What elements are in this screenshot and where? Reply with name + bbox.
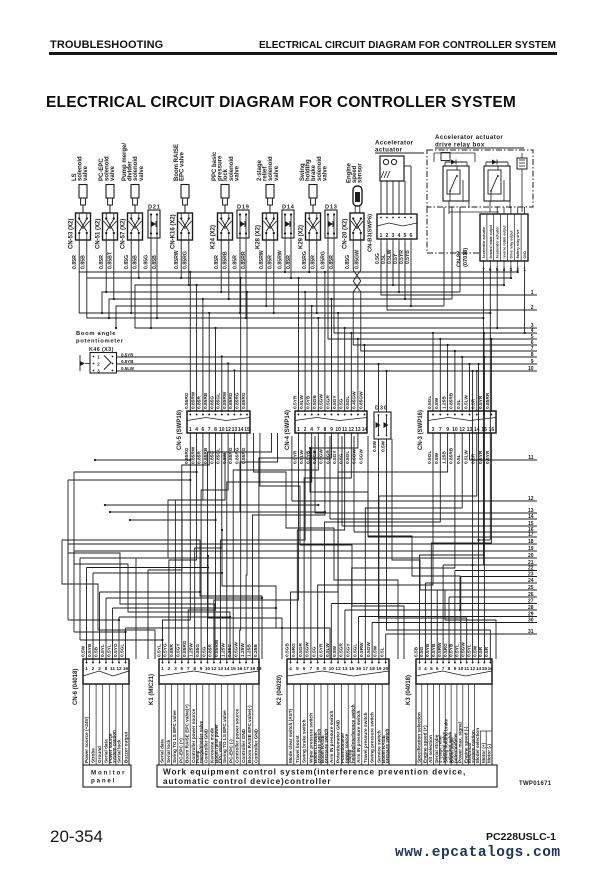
svg-text:CN-20 (X2): CN-20 (X2)	[343, 219, 349, 249]
wires CN-4 to K2 controller	[291, 433, 358, 659]
connector CN-5 (SWP18)	[177, 410, 250, 450]
svg-text:28: 28	[528, 605, 534, 611]
svg-text:8: 8	[316, 666, 319, 672]
svg-text:14: 14	[238, 427, 244, 433]
svg-text:10: 10	[329, 666, 335, 672]
svg-text:9: 9	[323, 666, 326, 672]
wires CN-5 to K1 controller	[163, 433, 248, 659]
net stub 31	[386, 629, 537, 659]
svg-text:15: 15	[231, 666, 237, 672]
svg-text:7: 7	[442, 666, 445, 672]
net stub 28	[345, 605, 537, 659]
svg-text:0.5GW: 0.5GW	[352, 449, 358, 464]
svg-text:1: 1	[189, 427, 192, 433]
svg-text:2: 2	[304, 427, 307, 433]
svg-text:0.5GY: 0.5GY	[346, 643, 352, 657]
svg-text:0.85RB: 0.85RB	[203, 447, 209, 464]
svg-text:10: 10	[219, 427, 225, 433]
svg-text:19: 19	[528, 546, 534, 552]
svg-text:7: 7	[439, 427, 442, 433]
solenoid valve CN-53 (LS solenoid valve)	[69, 156, 91, 269]
svg-text:Ground: Ground	[97, 746, 102, 763]
svg-text:15: 15	[482, 666, 488, 672]
monitor panel box	[83, 765, 131, 787]
svg-text:8: 8	[214, 427, 217, 433]
svg-text:valve: valve	[274, 165, 280, 181]
svg-text:15: 15	[349, 666, 355, 672]
svg-text:0.5YB: 0.5YB	[431, 643, 437, 657]
svg-text:13: 13	[218, 666, 224, 672]
connector CN-82 (07018)	[449, 207, 528, 272]
svg-text:K2 (04020): K2 (04020)	[277, 675, 283, 705]
wires into CN-6 monitor panel connector	[87, 566, 284, 659]
svg-text:6: 6	[202, 427, 205, 433]
svg-text:0.5L: 0.5L	[456, 399, 462, 409]
svg-text:0.85RG: 0.85RG	[183, 251, 189, 269]
svg-text:K1 (MIC21): K1 (MIC21)	[149, 674, 155, 705]
svg-text:0.5L: 0.5L	[380, 647, 386, 657]
svg-text:0.5GL: 0.5GL	[119, 644, 125, 657]
svg-text:Serial lock: Serial lock	[166, 739, 171, 763]
svg-text:4: 4	[289, 666, 292, 672]
svg-text:0.5YG: 0.5YG	[163, 643, 169, 657]
wire labels around CN-5	[184, 391, 247, 464]
svg-text:0.5YB: 0.5YB	[121, 359, 134, 364]
svg-text:12: 12	[335, 666, 341, 672]
svg-text:D30: D30	[375, 406, 388, 412]
svg-text:0.5B: 0.5B	[413, 646, 419, 657]
svg-text:0.85G: 0.85G	[195, 644, 201, 657]
connector CN-3 (SWP16)	[418, 410, 496, 450]
svg-text:27: 27	[528, 598, 534, 604]
svg-text:0.5GR: 0.5GR	[339, 643, 345, 657]
svg-text:0.5W: 0.5W	[373, 645, 379, 657]
svg-text:0.5YB: 0.5YB	[306, 395, 312, 409]
net stub 30	[372, 617, 537, 659]
svg-text:Motor (+): Motor (+)	[481, 742, 486, 763]
svg-text:0.5YB: 0.5YB	[405, 250, 411, 264]
svg-text:Swing pressure switch: Swing pressure switch	[370, 712, 375, 763]
svg-text:0.5W: 0.5W	[434, 452, 440, 464]
svg-text:2: 2	[92, 666, 95, 672]
bus stub lines 8-10 from potentiometer	[117, 352, 538, 372]
page title	[46, 94, 516, 112]
svg-text:9: 9	[454, 666, 457, 672]
svg-text:Controller GND: Controller GND	[254, 728, 259, 763]
svg-text:CN-57 (X2): CN-57 (X2)	[121, 219, 127, 249]
svg-text:9: 9	[531, 359, 534, 365]
net stub 11	[470, 433, 538, 461]
svg-text:3: 3	[392, 233, 395, 239]
svg-text:14: 14	[224, 666, 230, 672]
svg-text:0.5GW: 0.5GW	[366, 642, 372, 657]
svg-text:19: 19	[376, 666, 382, 672]
svg-text:15: 15	[244, 427, 250, 433]
connector CN-6 (04018) to monitor panel	[73, 643, 129, 705]
header: section name	[50, 39, 163, 51]
svg-text:6: 6	[303, 666, 306, 672]
svg-text:7: 7	[187, 666, 190, 672]
svg-text:17: 17	[528, 532, 534, 538]
net stub 12	[292, 436, 537, 502]
svg-text:0.85B: 0.85B	[81, 255, 87, 269]
svg-text:3: 3	[98, 666, 101, 672]
svg-text:16: 16	[488, 666, 494, 672]
svg-text:4: 4	[310, 427, 313, 433]
wires from CN-3 top to bus lines	[432, 332, 493, 411]
svg-text:12: 12	[528, 496, 534, 502]
svg-text:11: 11	[110, 666, 115, 672]
svg-text:3: 3	[432, 427, 435, 433]
svg-text:13: 13	[232, 427, 238, 433]
connector CN-B3(SWP6)	[368, 166, 418, 264]
svg-text:2: 2	[97, 362, 100, 367]
document code	[486, 831, 556, 843]
bus stub lines 4-5 from diode D13	[328, 240, 537, 340]
net stub 16	[354, 436, 537, 533]
svg-text:K28 (X2): K28 (X2)	[256, 225, 262, 249]
svg-text:9: 9	[446, 427, 449, 433]
svg-text:Boom RAISE EPC valve(+): Boom RAISE EPC valve(+)	[185, 704, 190, 763]
solenoid valve K24 (PPC basic pressure lock solenoid valve)	[211, 151, 241, 269]
svg-text:1: 1	[85, 666, 88, 672]
svg-text:12: 12	[116, 666, 122, 672]
svg-text:0.5G: 0.5G	[312, 646, 318, 657]
wires from CN-B3 down to bus lines	[392, 242, 412, 307]
svg-text:0.5GB: 0.5GB	[284, 643, 290, 657]
svg-text:GND: GND	[523, 251, 527, 259]
diode D13	[321, 205, 338, 270]
svg-text:14: 14	[362, 427, 368, 433]
diode D14	[278, 205, 295, 270]
potentiometer signal wires down to K3	[471, 356, 485, 659]
connector K3 (04018)	[406, 642, 493, 705]
solenoid valve K28 (2-stage relief solenoid valve)	[256, 156, 280, 269]
svg-text:0.85RW: 0.85RW	[190, 391, 196, 409]
svg-text:CN-K16 (X2): CN-K16 (X2)	[171, 214, 177, 249]
svg-text:0.5GL: 0.5GL	[345, 451, 351, 464]
svg-text:Battery relay drive: Battery relay drive	[516, 230, 520, 259]
svg-text:sensor: sensor	[358, 163, 364, 183]
svg-text:6: 6	[410, 233, 413, 239]
svg-text:0.5LW: 0.5LW	[463, 395, 469, 409]
svg-text:Model selection: Model selection	[475, 728, 480, 763]
svg-text:0.85RG: 0.85RG	[302, 251, 308, 269]
svg-text:16: 16	[356, 666, 362, 672]
net stub 24	[425, 578, 537, 659]
svg-text:14: 14	[476, 666, 482, 672]
accelerator actuator	[375, 140, 424, 182]
svg-text:0.5LW: 0.5LW	[299, 450, 305, 464]
svg-text:0.85RW: 0.85RW	[222, 391, 228, 409]
svg-text:0.5B: 0.5B	[93, 646, 99, 657]
accelerator actuator drive relay box (dash-dot enclosure)	[427, 134, 533, 253]
signal labels for CN-6	[83, 684, 129, 765]
svg-text:Work equipment control system(: Work equipment control system(interferen…	[163, 768, 466, 777]
svg-text:0.5W: 0.5W	[80, 645, 86, 657]
svg-text:Drive relay output: Drive relay output	[509, 230, 513, 259]
svg-text:5: 5	[404, 233, 407, 239]
svg-text:0.85GW: 0.85GW	[358, 391, 364, 409]
svg-text:Buzzer output: Buzzer output	[123, 731, 128, 763]
svg-text:19: 19	[256, 666, 262, 672]
svg-text:0.85G: 0.85G	[209, 451, 215, 464]
svg-text:drive relay box: drive relay box	[435, 142, 485, 149]
svg-text:Boom RAISE EPC valve(-): Boom RAISE EPC valve(-)	[247, 705, 252, 763]
svg-text:Accelerator actuator: Accelerator actuator	[482, 226, 486, 259]
svg-text:0.5GL: 0.5GL	[352, 644, 358, 657]
svg-text:pressure switch: pressure switch	[385, 728, 390, 763]
svg-text:0.85RB: 0.85RB	[203, 392, 209, 409]
svg-text:1.25W: 1.25W	[221, 643, 227, 657]
svg-text:Swing TO LS EPC valve: Swing TO LS EPC valve	[222, 710, 227, 763]
svg-text:0.85B: 0.85B	[133, 255, 139, 269]
svg-text:CN-5 (SWP18): CN-5 (SWP18)	[177, 410, 183, 450]
page number	[50, 827, 103, 847]
svg-text:0.5GW: 0.5GW	[305, 642, 311, 657]
svg-text:0.5RW: 0.5RW	[359, 642, 365, 657]
svg-text:12: 12	[459, 427, 465, 433]
net stub 17	[368, 436, 537, 538]
svg-text:0.5LW: 0.5LW	[299, 395, 305, 409]
svg-text:0.85RG: 0.85RG	[228, 392, 234, 409]
net stub 20	[80, 553, 537, 641]
solenoid valve CN-51 (PC-EPC solenoid valve)	[96, 156, 118, 269]
svg-text:16: 16	[237, 666, 243, 672]
net stub 21	[443, 560, 537, 659]
svg-text:0.85RG: 0.85RG	[182, 640, 188, 657]
svg-text:0.5YL: 0.5YL	[455, 644, 461, 657]
svg-text:Travel pressure switch: Travel pressure switch	[363, 712, 368, 763]
svg-text:26: 26	[528, 592, 534, 598]
svg-text:0.5R: 0.5R	[471, 453, 477, 464]
svg-text:3: 3	[174, 666, 177, 672]
solenoid valve CN-K16 (Boom RAISE EPC valve)	[171, 144, 193, 269]
svg-text:Travel boost: Travel boost	[295, 735, 300, 763]
svg-text:1: 1	[97, 355, 100, 360]
svg-text:Strobe: Strobe	[91, 748, 96, 763]
boom angle potentiometer K46 (X3)	[76, 331, 135, 374]
svg-text:16: 16	[123, 666, 129, 672]
svg-text:0.85R: 0.85R	[197, 396, 203, 409]
svg-text:2: 2	[386, 233, 389, 239]
svg-text:0.85GW: 0.85GW	[355, 250, 361, 269]
svg-text:Power source (+24V): Power source (+24V)	[84, 716, 89, 763]
svg-text:1: 1	[531, 290, 534, 296]
svg-text:0.5YL: 0.5YL	[156, 644, 162, 657]
svg-text:K24 (X2): K24 (X2)	[211, 225, 217, 249]
svg-text:valve: valve	[83, 165, 89, 181]
connector K1 (MIC21)	[149, 639, 262, 705]
svg-text:1.25W: 1.25W	[189, 643, 195, 657]
bus stub line 1 from CN-B3	[381, 242, 537, 296]
svg-text:0.5W: 0.5W	[372, 440, 378, 452]
svg-text:20: 20	[383, 666, 389, 672]
signal labels for K1	[159, 684, 259, 765]
svg-text:20: 20	[528, 553, 534, 559]
solenoid valve CN-57 (Pump merge/ divider solenoid valve)	[121, 143, 145, 269]
svg-text:EPC valve: EPC valve	[180, 151, 186, 181]
svg-text:CN-53 (X2): CN-53 (X2)	[69, 219, 75, 249]
work equipment controller box	[157, 765, 497, 787]
svg-text:23: 23	[528, 571, 534, 577]
svg-text:Specification selection: Specification selection	[417, 712, 422, 763]
svg-text:1.25B: 1.25B	[246, 644, 252, 657]
net stub 27	[331, 598, 537, 659]
wires from CN-4 top to bus lines	[297, 271, 365, 411]
svg-text:0.5GL: 0.5GL	[345, 396, 351, 409]
svg-text:0.5YR: 0.5YR	[292, 450, 298, 464]
svg-text:TWP01671: TWP01671	[519, 781, 552, 787]
svg-text:9: 9	[200, 666, 203, 672]
svg-text:0.85R: 0.85R	[214, 255, 220, 269]
svg-text:0.85G: 0.85G	[209, 396, 215, 409]
svg-text:0.5R: 0.5R	[471, 398, 477, 409]
svg-text:10: 10	[528, 366, 534, 372]
svg-text:0.45GW: 0.45GW	[352, 391, 358, 409]
svg-text:0.5W: 0.5W	[381, 440, 387, 452]
svg-text:14: 14	[528, 514, 534, 520]
net stub 25	[437, 585, 537, 659]
svg-text:0.5RW: 0.5RW	[437, 642, 443, 657]
svg-text:7: 7	[317, 427, 320, 433]
wire labels around CN-3	[427, 392, 491, 464]
svg-text:18: 18	[369, 666, 375, 672]
svg-text:0.85R: 0.85R	[233, 255, 239, 269]
svg-text:11: 11	[528, 455, 534, 461]
svg-text:CN-4 (SWP14): CN-4 (SWP14)	[285, 410, 291, 450]
svg-text:0.5G: 0.5G	[201, 646, 207, 657]
svg-text:0.5YB: 0.5YB	[425, 643, 431, 657]
svg-text:Mode clear switch (AST): Mode clear switch (AST)	[288, 708, 293, 763]
svg-text:Motor (-): Motor (-)	[487, 744, 492, 763]
svg-text:0.85RB: 0.85RB	[449, 392, 455, 409]
svg-text:0.85RB: 0.85RB	[449, 447, 455, 464]
signal labels for K2	[287, 684, 390, 765]
svg-text:panel: panel	[91, 778, 116, 785]
svg-text:12: 12	[225, 427, 231, 433]
svg-text:Swing TO LS EPC valve: Swing TO LS EPC valve	[172, 710, 177, 763]
wires from D30 top to bus lines	[377, 363, 387, 412]
svg-text:PC-EPC (+): PC-EPC (+)	[179, 738, 184, 763]
svg-text:Arm IN pressure switch: Arm IN pressure switch	[329, 711, 334, 763]
svg-text:5: 5	[296, 666, 299, 672]
svg-text:Swing brake switch: Swing brake switch	[302, 719, 307, 763]
svg-text:CN-82: CN-82	[457, 251, 463, 267]
wires CN-3 to K3 controller	[420, 433, 492, 659]
svg-text:30: 30	[528, 617, 534, 623]
svg-text:CN-6 (04018): CN-6 (04018)	[73, 669, 79, 705]
svg-text:1.25B: 1.25B	[441, 396, 447, 409]
svg-text:0.85GL: 0.85GL	[216, 448, 222, 464]
svg-text:0.5YL: 0.5YL	[106, 644, 112, 657]
svg-text:0.85R: 0.85R	[72, 255, 78, 269]
svg-text:0.85RW: 0.85RW	[259, 250, 265, 269]
twisted pair wires of CN-20	[353, 240, 361, 310]
net stub 13	[315, 436, 537, 514]
svg-text:0.5GW: 0.5GW	[319, 449, 325, 464]
svg-text:0.5G: 0.5G	[339, 398, 345, 409]
wires CN-4 to K1 controller	[214, 433, 332, 659]
svg-text:0.5W: 0.5W	[472, 645, 478, 657]
net stub 22	[455, 565, 537, 659]
svg-text:0.5LW: 0.5LW	[121, 366, 135, 371]
svg-text:0.5YR: 0.5YR	[292, 395, 298, 409]
svg-text:0.5YB: 0.5YB	[87, 643, 93, 657]
svg-text:Controller GND: Controller GND	[241, 728, 246, 763]
wires CN-3 to K2 controller	[318, 433, 477, 659]
svg-text:31: 31	[528, 629, 534, 635]
wires D30 to K3 controller	[379, 439, 491, 659]
svg-text:Accelerator actuator: Accelerator actuator	[496, 226, 500, 259]
svg-text:10: 10	[458, 666, 464, 672]
svg-text:Serial lock: Serial lock	[117, 739, 122, 763]
svg-text:forward rotate output: forward rotate output	[489, 224, 493, 258]
svg-text:0.5L: 0.5L	[456, 454, 462, 464]
svg-text:CN-51 (X2): CN-51 (X2)	[96, 219, 102, 249]
svg-text:0.85RB: 0.85RB	[223, 251, 229, 269]
svg-text:4: 4	[424, 666, 427, 672]
svg-text:11: 11	[464, 666, 469, 672]
svg-text:0.5GB: 0.5GB	[312, 395, 318, 409]
svg-text:0.5YL: 0.5YL	[466, 644, 472, 657]
svg-text:Arm IN pressure switch: Arm IN pressure switch	[356, 711, 361, 763]
svg-text:Controller GND: Controller GND	[204, 728, 209, 763]
svg-text:Engine speed (+): Engine speed (+)	[422, 725, 427, 763]
net stub 19	[74, 546, 537, 633]
relay R2 (accelerator actuator drive)	[484, 160, 510, 202]
svg-text:0.5W: 0.5W	[434, 397, 440, 409]
relay R1 (accelerator actuator drive)	[443, 160, 469, 202]
svg-text:1.25W: 1.25W	[240, 643, 246, 657]
svg-text:(07018): (07018)	[463, 248, 469, 267]
svg-text:0.5GR: 0.5GR	[298, 643, 304, 657]
svg-text:0.25B: 0.25B	[253, 644, 259, 657]
svg-text:reverse rotate output: reverse rotate output	[503, 225, 507, 259]
svg-text:Monitor: Monitor	[91, 770, 126, 777]
solenoid valve K29 (Swing holding brake solenoid valve)	[299, 156, 329, 269]
svg-text:PC-EPC (-): PC-EPC (-)	[229, 739, 234, 763]
svg-text:0.85R: 0.85R	[311, 255, 317, 269]
svg-text:4: 4	[398, 233, 401, 239]
svg-text:actuator: actuator	[375, 147, 403, 154]
svg-text:13: 13	[342, 666, 348, 672]
connector K2 (04020)	[277, 642, 389, 705]
svg-text:8: 8	[531, 352, 534, 358]
svg-text:valve: valve	[234, 165, 240, 181]
svg-text:5: 5	[180, 666, 183, 672]
svg-text:2: 2	[168, 666, 171, 672]
svg-text:16: 16	[489, 427, 495, 433]
svg-text:0.85RW: 0.85RW	[190, 446, 196, 464]
wires from CN-82 down to bus lines	[482, 266, 525, 565]
svg-text:8: 8	[324, 427, 327, 433]
svg-text:7: 7	[310, 666, 313, 672]
svg-text:0.5RG: 0.5RG	[291, 643, 297, 657]
svg-text:0.5GW: 0.5GW	[461, 642, 467, 657]
svg-text:18: 18	[250, 666, 256, 672]
svg-text:CN-B3(SWP6): CN-B3(SWP6)	[368, 214, 374, 252]
svg-text:0.5G: 0.5G	[339, 453, 345, 464]
svg-text:8: 8	[193, 666, 196, 672]
svg-text:0.85R: 0.85R	[268, 255, 274, 269]
net stub 29	[359, 611, 538, 659]
svg-text:25: 25	[528, 585, 534, 591]
header rule	[49, 52, 557, 55]
svg-text:0.85RG: 0.85RG	[235, 447, 241, 464]
svg-text:pressure switch: pressure switch	[324, 728, 329, 763]
svg-text:5: 5	[430, 666, 433, 672]
